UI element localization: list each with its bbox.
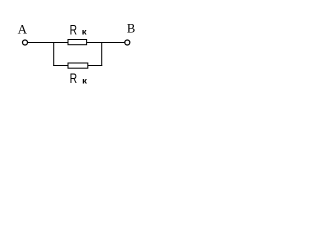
svg-text:R: R xyxy=(70,22,78,37)
wire right branch vertical xyxy=(101,42,103,66)
label Rк (bottom) xyxy=(70,71,88,86)
svg-text:к: к xyxy=(82,28,88,37)
wire resistor R2 to right branch xyxy=(88,65,103,67)
wire left branch vertical xyxy=(53,42,55,66)
wire bottom left to resistor R2 xyxy=(53,65,68,67)
terminal A xyxy=(23,40,28,45)
resistor R2 (Rк bottom) xyxy=(68,63,88,68)
terminal B xyxy=(125,40,130,45)
svg-text:R: R xyxy=(70,71,78,86)
svg-text:к: к xyxy=(82,76,88,85)
wire resistor R1 to B xyxy=(87,42,125,44)
svg-text:B: B xyxy=(127,21,135,35)
svg-text:A: A xyxy=(18,22,28,37)
wire A to resistor R1 xyxy=(28,42,69,44)
label Rк (top) xyxy=(70,22,88,37)
resistor R1 (Rк top) xyxy=(68,40,87,45)
